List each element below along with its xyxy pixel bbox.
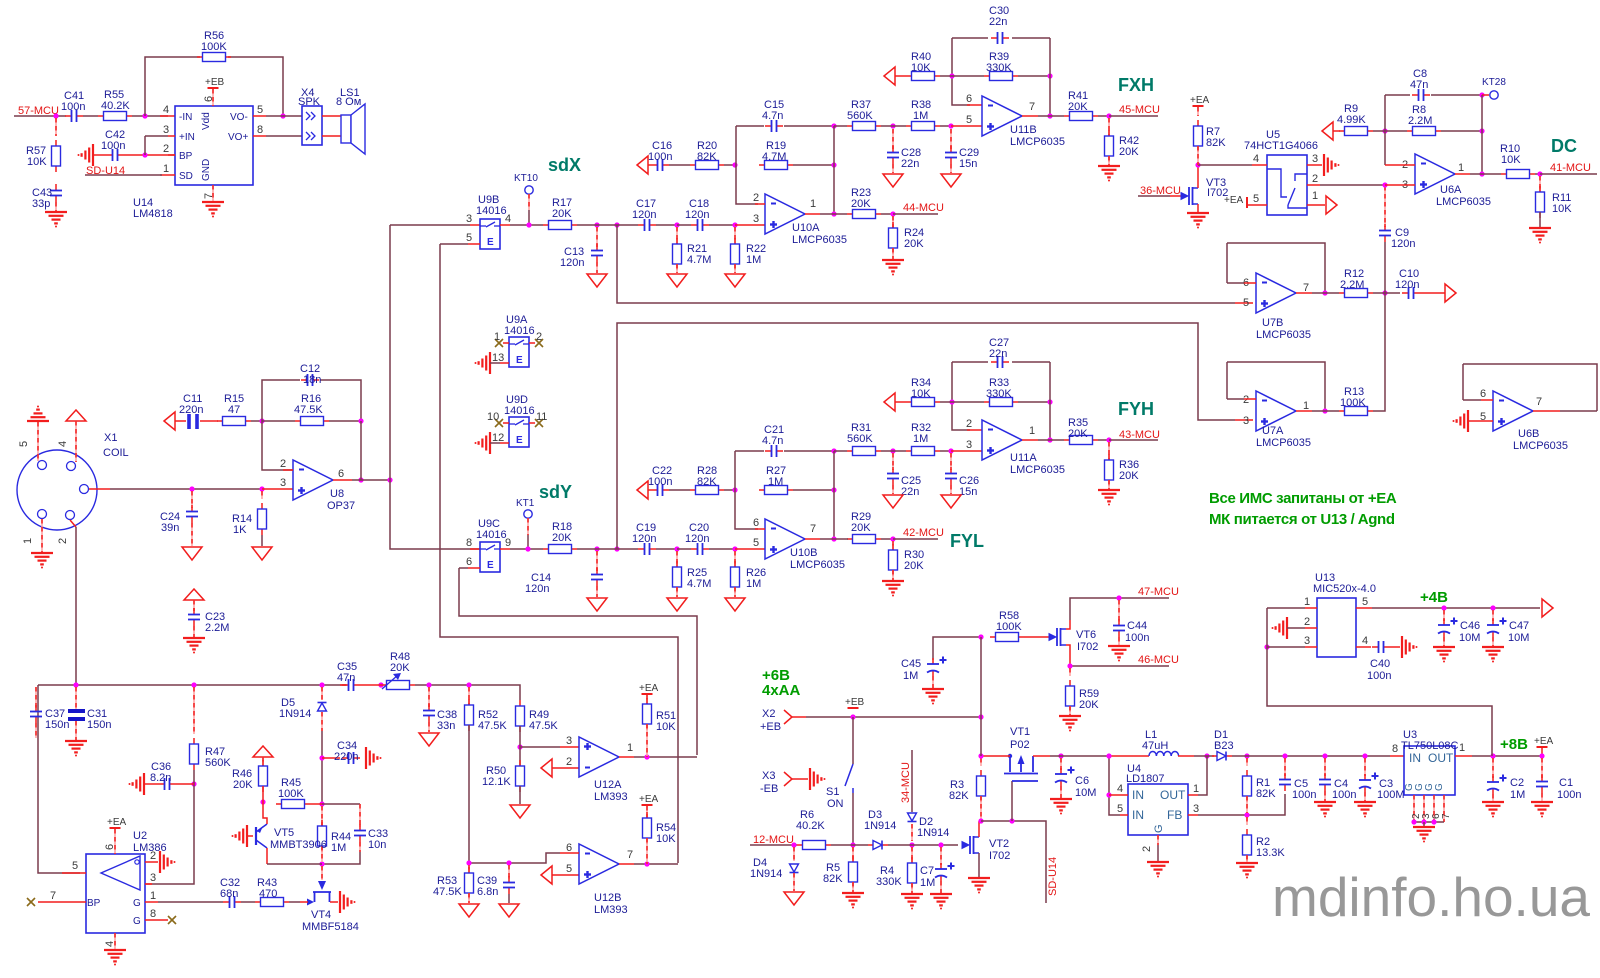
wire VO+ to X4: [253, 135, 266, 137]
svg-text:6: 6: [104, 844, 116, 850]
gate VT4 from R43: [307, 899, 314, 906]
svg-text:15n: 15n: [959, 158, 977, 170]
wire sdX tap to U7B+: [617, 225, 1235, 303]
svg-text:7: 7: [1536, 396, 1542, 408]
transistor VT4 MMBF5184 with drain arrow: [321, 866, 323, 880]
input arrow R9: [1322, 122, 1333, 140]
svg-text:C7: C7: [920, 865, 934, 877]
svg-text:1: 1: [1303, 400, 1309, 412]
resistor R24: [892, 216, 894, 228]
svg-text:14016: 14016: [476, 205, 507, 217]
svg-text:1: 1: [1312, 190, 1318, 202]
svg-text:9: 9: [505, 537, 511, 549]
svg-text:6: 6: [466, 556, 472, 568]
junction sdX tap: [614, 222, 619, 227]
svg-text:X2: X2: [762, 708, 775, 720]
wire VT1 leads: [981, 755, 1010, 757]
wire 44-MCU: [893, 213, 938, 215]
wires X4 to LS1: [322, 115, 341, 117]
svg-text:4: 4: [57, 441, 69, 447]
wire to U11B pin5: [951, 125, 982, 127]
wire U9C pin6 enable: [468, 567, 480, 569]
wire U10B out: [805, 538, 820, 540]
svg-text:13.3K: 13.3K: [1256, 847, 1285, 859]
wire C8 right vertical: [1481, 95, 1483, 174]
svg-text:22n: 22n: [989, 16, 1007, 28]
svg-text:100K: 100K: [996, 621, 1022, 633]
junction C29: [948, 123, 953, 128]
wire X1 pin3 to U8 +: [89, 488, 110, 490]
ground R11: [1539, 212, 1541, 227]
input arrow sdY filter: [637, 481, 648, 499]
junction C4: [1322, 753, 1327, 758]
junction U4 OUT: [1204, 753, 1209, 758]
ground X1 pin1: [41, 519, 43, 552]
junction C24: [189, 486, 194, 491]
wire U7A feedback loop: [1227, 398, 1244, 400]
junction R49/R50: [517, 744, 522, 749]
capacitor C13: [596, 227, 598, 247]
IC U5 74HCT1G4066: [1267, 155, 1307, 215]
resistor R45: [262, 786, 264, 802]
svg-text:+EA: +EA: [639, 683, 659, 694]
input arrow R40: [884, 67, 895, 85]
switch U9C 14016: [480, 542, 500, 572]
junction +8B: [1490, 753, 1495, 758]
svg-text:МК питается от U13 / Agnd: МК питается от U13 / Agnd: [1209, 511, 1395, 528]
resistor R21: [676, 227, 678, 244]
input arrow sdX filter: [637, 156, 648, 174]
svg-text:+EA: +EA: [1534, 736, 1554, 747]
svg-text:100K: 100K: [201, 41, 227, 53]
svg-text:Все ИМС запитаны от +ЕА: Все ИМС запитаны от +ЕА: [1209, 490, 1397, 507]
svg-text:1M: 1M: [913, 433, 928, 445]
wire enable down to U12B out: [440, 244, 678, 863]
svg-text:LMCP6035: LMCP6035: [1436, 196, 1491, 208]
junction C3: [1362, 753, 1367, 758]
svg-text:+EB: +EB: [845, 697, 865, 708]
svg-text:5: 5: [1243, 297, 1249, 309]
resistor R10: [1501, 173, 1507, 175]
test point KT28: [1482, 94, 1489, 96]
resistor R14: [261, 491, 263, 499]
wire bus to C35: [340, 684, 347, 686]
ground R14: [261, 535, 263, 546]
svg-text:U6B: U6B: [1518, 428, 1539, 440]
capacitor C21: [735, 450, 764, 452]
svg-text:6: 6: [338, 468, 344, 480]
wire U5 pin2 to U6A+: [1307, 184, 1320, 186]
wire VT2 drain to R3 node: [978, 821, 980, 837]
junction VT5 collector node: [319, 861, 324, 866]
svg-text:U6A: U6A: [1440, 184, 1462, 196]
resistor R42: [1108, 118, 1110, 136]
junction R45 right: [319, 801, 324, 806]
svg-text:1: 1: [163, 163, 169, 175]
svg-text:1: 1: [1459, 742, 1465, 754]
svg-text:6: 6: [753, 517, 759, 529]
svg-text:3: 3: [280, 477, 286, 489]
svg-text:82K: 82K: [1206, 137, 1226, 149]
svg-text:C6: C6: [1075, 775, 1089, 787]
pin8 U2 no connect: [145, 919, 168, 921]
junction BP node: [142, 152, 147, 157]
input arrow C11: [164, 412, 175, 430]
junction bus R47: [191, 682, 196, 687]
resistor R34: [895, 401, 906, 403]
svg-text:3: 3: [753, 213, 759, 225]
svg-text:45-MCU: 45-MCU: [1119, 104, 1160, 116]
capacitor C4: [1324, 758, 1326, 776]
svg-text:LMCP6035: LMCP6035: [790, 559, 845, 571]
test point KT10: [525, 186, 533, 194]
resistor R53: [468, 865, 470, 873]
svg-text:G: G: [133, 916, 141, 927]
power arrow X1 pin4: [66, 410, 86, 421]
svg-text:I702: I702: [1207, 187, 1228, 199]
svg-text:+8B: +8B: [1500, 736, 1528, 753]
op-amp U11A: [982, 420, 1022, 460]
svg-text:ON: ON: [827, 798, 844, 810]
diode D4: [793, 847, 795, 861]
resistor R28: [690, 489, 696, 491]
svg-text:G: G: [1434, 783, 1445, 791]
wire +EB rail down to VT1: [980, 717, 982, 756]
pin2 U2 sideways ground: [145, 861, 158, 863]
wire R58 to VT6 gate: [1024, 636, 1049, 638]
junction C15 right: [831, 123, 836, 128]
capacitor C32: [223, 901, 230, 903]
svg-text:3: 3: [1304, 635, 1310, 647]
capacitor C23 with power arrow: [184, 589, 204, 600]
svg-text:560K: 560K: [847, 110, 873, 122]
svg-text:5: 5: [257, 104, 263, 116]
wire VT1 gate: [1011, 781, 1013, 821]
svg-text:43-MCU: 43-MCU: [1119, 429, 1160, 441]
resistor R36: [1108, 442, 1110, 460]
wire to U10B pin5: [735, 548, 765, 550]
svg-text:2: 2: [163, 143, 169, 155]
svg-text:33p: 33p: [32, 198, 50, 210]
power +EA R54: [642, 804, 653, 806]
junction S1/R5: [850, 842, 855, 847]
svg-text:5: 5: [1362, 596, 1368, 608]
svg-text:LM393: LM393: [594, 791, 628, 803]
svg-text:OUT: OUT: [1428, 751, 1454, 765]
wire R55 to U14 -IN: [132, 115, 168, 117]
junction VT1 gate: [1009, 818, 1014, 823]
junction U11A out: [1047, 437, 1052, 442]
junction C39: [506, 860, 511, 865]
junction C47: [1490, 605, 1495, 610]
svg-text:20K: 20K: [1079, 699, 1099, 711]
svg-text:20K: 20K: [851, 522, 871, 534]
X1 pin 3 circle: [80, 485, 89, 494]
junction R58/C45: [978, 634, 983, 639]
svg-text:LD1807: LD1807: [1126, 773, 1165, 785]
svg-text:1: 1: [810, 198, 816, 210]
wire X1 pin2 down to analog bus: [70, 520, 76, 527]
switch U9A 14016: [509, 337, 529, 367]
junction R25: [674, 546, 679, 551]
power +EB tap: [848, 707, 859, 709]
junction R57 node: [53, 113, 58, 118]
wire VT5 collector: [266, 848, 268, 864]
U9A pin2 no connect: [529, 342, 535, 344]
svg-text:G: G: [1153, 824, 1165, 833]
svg-text:20K: 20K: [904, 560, 924, 572]
wire sdY tap to U7A+: [617, 323, 1235, 549]
junction 45-MCU: [1106, 113, 1111, 118]
wire D3 to VT2 gate: [888, 844, 958, 846]
ground C31: [75, 721, 77, 740]
junction C1: [1539, 753, 1544, 758]
svg-text:E: E: [516, 355, 523, 366]
junction C28: [890, 123, 895, 128]
svg-text:40.2K: 40.2K: [101, 100, 130, 112]
wire U12B out: [619, 863, 634, 865]
svg-text:100n: 100n: [1125, 632, 1149, 644]
junction R22: [732, 222, 737, 227]
svg-text:14016: 14016: [476, 529, 507, 541]
wire feedback vertical right U11A: [1049, 362, 1051, 440]
IC U2 LM386: [86, 854, 145, 933]
IC U13 MIC520x-4.0: [1317, 598, 1356, 657]
ground VT3 source: [1197, 204, 1199, 212]
wire VT5 emitter: [263, 802, 267, 824]
svg-text:7: 7: [1303, 282, 1309, 294]
svg-text:82K: 82K: [697, 476, 717, 488]
svg-text:X3: X3: [762, 770, 775, 782]
junction C21 right: [831, 448, 836, 453]
op-amp U12A LM393: [579, 737, 619, 777]
svg-text:4: 4: [1253, 153, 1259, 165]
resistor R15: [217, 420, 223, 422]
svg-text:82K: 82K: [949, 790, 969, 802]
svg-text:4.7M: 4.7M: [687, 578, 711, 590]
svg-text:2: 2: [566, 756, 572, 768]
svg-text:1M: 1M: [903, 670, 918, 682]
wire VT6 source to 46-MCU: [1066, 645, 1070, 666]
svg-text:330K: 330K: [986, 388, 1012, 400]
svg-text:KT10: KT10: [514, 173, 538, 184]
svg-text:U11A: U11A: [1010, 452, 1037, 464]
junction KT1: [525, 546, 530, 551]
capacitor C45 polarized: [932, 658, 934, 664]
svg-text:3: 3: [966, 439, 972, 451]
svg-text:1: 1: [627, 742, 633, 754]
svg-text:1: 1: [1029, 425, 1035, 437]
svg-text:FYH: FYH: [1118, 399, 1154, 419]
svg-text:VT1: VT1: [1010, 726, 1030, 738]
svg-text:74HCT1G4066: 74HCT1G4066: [1244, 140, 1318, 152]
svg-text:4: 4: [163, 104, 169, 116]
resistor R6: [797, 844, 803, 846]
wire R17 to C17: [577, 224, 638, 226]
wire R47 to U2 pin3: [152, 770, 194, 884]
svg-text:X1: X1: [104, 432, 117, 444]
capacitor C15: [736, 125, 764, 127]
capacitor C34 to bus node: [319, 755, 324, 760]
wire R6 to D3: [831, 844, 868, 846]
svg-text:KT28: KT28: [1482, 77, 1506, 88]
junction R40/R39: [949, 73, 954, 78]
svg-text:LM393: LM393: [594, 904, 628, 916]
U9D pin12 ground: [489, 432, 491, 454]
svg-text:S1: S1: [826, 786, 839, 798]
ground U2 pin4: [114, 933, 116, 949]
wire to U8 pin3: [262, 488, 293, 490]
svg-text:3: 3: [466, 213, 472, 225]
wire +IN to BP node: [144, 136, 146, 155]
wire C45 node to R58: [933, 637, 981, 660]
wire U10A out: [805, 213, 820, 215]
svg-text:42-MCU: 42-MCU: [903, 527, 944, 539]
svg-text:C47: C47: [1509, 620, 1529, 632]
resistor R18: [543, 548, 549, 550]
svg-text:5: 5: [753, 537, 759, 549]
resistor R37: [847, 125, 853, 127]
junction R3 bottom: [978, 818, 983, 823]
svg-text:20K: 20K: [1068, 101, 1088, 113]
ground C43: [55, 202, 57, 211]
svg-text:6: 6: [1480, 388, 1486, 400]
X1 pin 4 circle: [67, 462, 76, 471]
svg-text:2.2M: 2.2M: [1340, 279, 1364, 291]
svg-text:44-MCU: 44-MCU: [903, 202, 944, 214]
capacitor C9: [1384, 186, 1386, 227]
svg-text:2: 2: [966, 418, 972, 430]
svg-text:1M: 1M: [920, 877, 935, 889]
svg-text:22n: 22n: [901, 158, 919, 170]
svg-text:20K: 20K: [1068, 428, 1088, 440]
svg-text:6: 6: [966, 93, 972, 105]
svg-text:20K: 20K: [851, 198, 871, 210]
wire 43-MCU: [1109, 439, 1158, 441]
junction R15/R16 node: [259, 418, 264, 423]
X1 pin 2 circle: [66, 511, 75, 520]
capacitor C36 and ground: [143, 773, 145, 795]
ground U6B pin5: [1467, 410, 1469, 432]
resistor R1: [1246, 758, 1248, 766]
svg-text:1: 1: [150, 890, 156, 902]
junction 44-MCU: [890, 211, 895, 216]
wire U6A pin2: [1400, 164, 1415, 166]
wire C42 to BP: [124, 154, 175, 156]
wire U7B out: [1296, 292, 1312, 294]
svg-text:470: 470: [259, 888, 277, 900]
svg-text:LMCP6035: LMCP6035: [1513, 440, 1568, 452]
svg-text:2: 2: [1141, 846, 1153, 852]
svg-text:U8: U8: [330, 488, 344, 500]
resistor R54: [646, 812, 648, 818]
wire U8 out down to sdY row: [390, 480, 480, 549]
svg-text:100K: 100K: [1340, 397, 1366, 409]
svg-text:100n: 100n: [101, 140, 125, 152]
junction R33 right: [1047, 399, 1052, 404]
capacitor C14: [596, 551, 598, 571]
resistor R55: [98, 115, 104, 117]
svg-text:C2: C2: [1510, 777, 1524, 789]
resistor R8: [1407, 130, 1413, 132]
svg-text:220n: 220n: [179, 404, 203, 416]
resistor R46: [262, 760, 264, 766]
svg-text:120n: 120n: [632, 209, 656, 221]
wire U6A out: [1455, 173, 1470, 175]
wire bus left down to U2 pin5: [38, 685, 80, 873]
svg-text:U11B: U11B: [1010, 124, 1037, 136]
svg-text:100K: 100K: [278, 788, 304, 800]
pin5 U2 stub: [62, 872, 86, 874]
svg-text:560K: 560K: [847, 433, 873, 445]
svg-text:FYL: FYL: [950, 531, 984, 551]
svg-text:47-MCU: 47-MCU: [1138, 586, 1179, 598]
wire U11A pin2: [952, 362, 970, 430]
svg-text:2: 2: [1304, 616, 1310, 628]
junction U6A pin3 node: [1382, 182, 1387, 187]
wire enable down to U12A out: [459, 568, 697, 755]
connector X4 SPK: [302, 106, 322, 145]
wire R43 to VT4 gate: [289, 901, 300, 903]
capacitor C6 polarized: [1060, 758, 1062, 770]
capacitor C19: [638, 548, 645, 550]
wire U6B feedback loop: [1463, 399, 1481, 401]
switch U9D 14016: [509, 417, 529, 447]
capacitor C31 150n thick: [68, 709, 85, 713]
svg-text:LMCP6035: LMCP6035: [792, 234, 847, 246]
svg-text:12: 12: [492, 432, 504, 444]
junction C38: [426, 682, 431, 687]
junction bus D5: [319, 682, 324, 687]
svg-text:100n: 100n: [1332, 789, 1356, 801]
capacitor C28: [892, 129, 894, 149]
wire node to U8 pin2: [262, 421, 293, 470]
svg-text:IN: IN: [1132, 788, 1144, 802]
resistor R13: [1339, 410, 1345, 412]
svg-text:4xAA: 4xAA: [762, 682, 801, 699]
svg-text:100M: 100M: [1377, 789, 1405, 801]
svg-text:8 Ом: 8 Ом: [336, 96, 361, 108]
svg-text:14016: 14016: [504, 325, 535, 337]
ground pins U3: [1413, 795, 1415, 822]
svg-text:82K: 82K: [823, 873, 843, 885]
svg-text:3: 3: [150, 872, 156, 884]
wire U8 output: [333, 479, 352, 481]
junction R26: [732, 546, 737, 551]
svg-text:100n: 100n: [1292, 789, 1316, 801]
wire U8 out to U9B pin3: [390, 224, 470, 226]
svg-text:82K: 82K: [1256, 788, 1276, 800]
junction C13: [594, 222, 599, 227]
wire node A vertical sdY: [735, 451, 758, 529]
resistor R16: [295, 420, 301, 422]
junction R39 right: [1047, 73, 1052, 78]
junction R3 top: [978, 753, 983, 758]
wire 12-MCU row: [750, 844, 797, 846]
svg-text:mdinfo.ho.ua: mdinfo.ho.ua: [1272, 866, 1590, 928]
svg-text:41-MCU: 41-MCU: [1550, 162, 1591, 174]
junction R27 right: [831, 487, 836, 492]
capacitor C38: [428, 687, 430, 707]
svg-text:2: 2: [753, 192, 759, 204]
wire SD input: [85, 174, 162, 176]
svg-text:MMBT3906: MMBT3906: [270, 839, 327, 851]
wire U2 pin1 to C32: [145, 901, 158, 903]
wire feedback loop R56: [145, 57, 200, 116]
junction output bus: [387, 477, 392, 482]
resistor R25: [676, 551, 678, 567]
resistor R30: [892, 541, 894, 550]
